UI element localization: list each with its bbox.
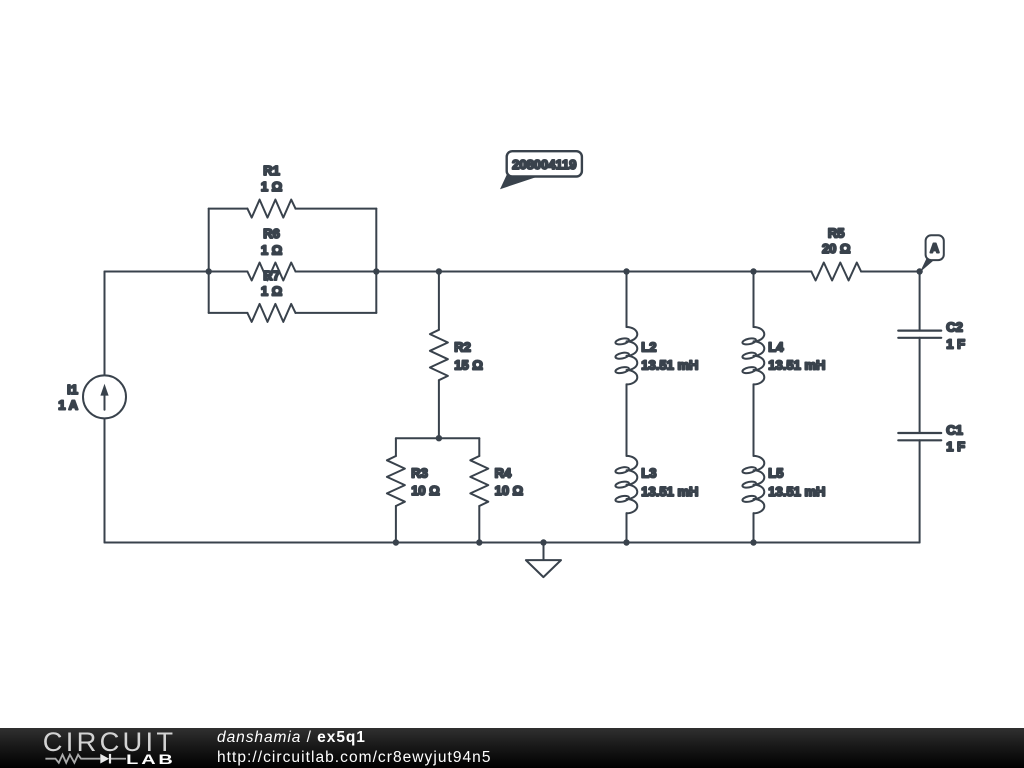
title: danshamia / ex5q1 [217, 729, 366, 747]
wire R4 bottom lead [478, 506, 480, 543]
wire R7 left lead [209, 312, 248, 314]
junction node at R2 branch [436, 268, 442, 274]
wire R7 right lead [296, 312, 377, 314]
wire R2 bottom lead [438, 380, 440, 438]
svg-text:C1: C1 [946, 423, 963, 438]
svg-text:13.51 mH: 13.51 mH [641, 357, 698, 372]
wire bottom bus [105, 542, 920, 544]
svg-text:L3: L3 [641, 466, 656, 481]
svg-text:15 Ω: 15 Ω [454, 357, 483, 372]
svg-text:13.51 mH: 13.51 mH [768, 484, 825, 499]
wire R3-R4 header [396, 437, 479, 439]
junction node A junction [916, 268, 922, 274]
wire parallel box left rail [208, 209, 210, 313]
resistor R3 [387, 456, 405, 506]
wire L3 bottom lead [626, 513, 628, 542]
svg-text:A: A [930, 241, 939, 255]
resistor R1 [247, 200, 295, 218]
svg-text:R7: R7 [263, 268, 280, 283]
wire L2-L3 link [626, 384, 628, 456]
wire parallel box right rail [375, 209, 377, 313]
wire right rail: C1 to bottom bus [919, 440, 921, 542]
url [217, 749, 492, 767]
svg-text:1 F: 1 F [946, 439, 965, 454]
svg-text:13.51 mH: 13.51 mH [641, 484, 698, 499]
wire top bus: I1 to R6 [105, 271, 248, 273]
svg-text:1 A: 1 A [58, 397, 78, 412]
wire L5 bottom lead [753, 513, 755, 542]
wire right rail: A to C2 [919, 272, 921, 331]
capacitor C1 [898, 433, 941, 440]
inductor L4 [742, 327, 764, 384]
svg-text:R4: R4 [495, 466, 512, 481]
svg-text:LAB: LAB [126, 751, 176, 767]
svg-text:1 Ω: 1 Ω [261, 243, 282, 258]
junction node at box left [206, 268, 212, 274]
svg-text:208004119: 208004119 [512, 157, 576, 172]
svg-text:L5: L5 [768, 466, 783, 481]
junction node at L2 branch [623, 268, 629, 274]
wire R1 left lead [209, 208, 248, 210]
capacitor C2 [898, 331, 941, 338]
svg-text:L2: L2 [641, 339, 656, 354]
inductor L5 [742, 456, 764, 513]
wire R2 top lead [438, 272, 440, 330]
junction node R2/R3/R4 [436, 435, 442, 441]
junction node at L4 branch [750, 268, 756, 274]
junction node L3 bottom [623, 539, 629, 545]
svg-text:C2: C2 [946, 319, 963, 334]
svg-text:10 Ω: 10 Ω [495, 483, 523, 498]
svg-text:L4: L4 [768, 339, 784, 354]
wire L4 top lead [753, 272, 755, 328]
svg-text:R3: R3 [411, 466, 428, 481]
node A flag [920, 235, 944, 272]
inductor L3 [615, 456, 637, 513]
junction node R3 bottom [393, 539, 399, 545]
inductor L2 [615, 327, 637, 384]
current source I1 [83, 375, 126, 418]
resistor R6 [247, 263, 295, 281]
svg-text:1 Ω: 1 Ω [261, 179, 282, 194]
wire right rail: C2 to C1 [919, 338, 921, 433]
annotation bubble 208004119 [500, 151, 582, 189]
wire R3 bottom lead [395, 506, 397, 543]
svg-text:R2: R2 [454, 339, 471, 354]
wire R4 top lead [478, 438, 480, 456]
junction node ground [540, 539, 546, 545]
wire top bus: R6 to R5 [296, 271, 812, 273]
wire R1 right lead [296, 208, 377, 210]
svg-text:R1: R1 [263, 163, 280, 178]
wire I1 top lead [104, 272, 106, 376]
resistor R5 [811, 263, 861, 281]
svg-text:I1: I1 [67, 382, 78, 397]
svg-text:13.51 mH: 13.51 mH [768, 357, 825, 372]
resistor R7 [247, 304, 295, 322]
wire I1 bottom lead [104, 418, 106, 542]
svg-text:1 Ω: 1 Ω [261, 284, 282, 299]
ground [526, 543, 561, 578]
junction node at box right [373, 268, 379, 274]
junction node R4 bottom [476, 539, 482, 545]
svg-text:20 Ω: 20 Ω [822, 241, 851, 256]
svg-text:10 Ω: 10 Ω [411, 483, 440, 498]
svg-text:R5: R5 [828, 226, 845, 241]
wire L4-L5 link [753, 384, 755, 456]
svg-text:1 F: 1 F [946, 336, 965, 351]
footer brand bar [0, 728, 1024, 768]
svg-text:R6: R6 [263, 226, 280, 241]
wire L2 top lead [626, 272, 628, 328]
resistor R4 [470, 456, 488, 506]
CircuitLab logo [0, 728, 200, 768]
resistor R2 [430, 330, 448, 380]
junction node L5 bottom [750, 539, 756, 545]
wire top bus: R5 to node A [861, 271, 920, 273]
wire R3 top lead [395, 438, 397, 456]
